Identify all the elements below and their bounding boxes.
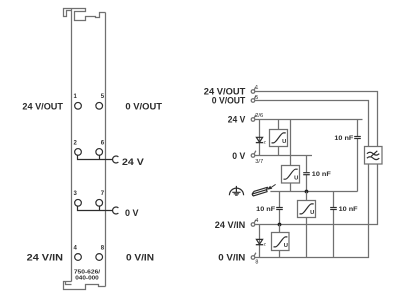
svg-text:8: 8	[255, 260, 258, 266]
pin 4 contact	[75, 254, 82, 261]
svg-text:4: 4	[255, 218, 258, 224]
terminal 5 circle with actuation slash	[251, 96, 256, 103]
svg-text:0 V/OUT: 0 V/OUT	[212, 96, 246, 106]
terminal block module outline (left edge)	[71, 9, 73, 282]
wire net 0V/OUT: terminal 5 to filter left lead	[255, 101, 369, 147]
svg-text:5: 5	[101, 94, 105, 100]
svg-text:7: 7	[101, 191, 105, 197]
wire from pins 2 and 6 to 24 V field clamp	[78, 155, 113, 159]
wire net 0V rail	[255, 155, 312, 157]
DIN rail contact symbol (rail with arrow)	[252, 184, 275, 196]
svg-text:10 nF: 10 nF	[312, 171, 331, 178]
pin 2 contact	[75, 149, 82, 156]
svg-text:z: z	[264, 140, 267, 145]
svg-text:0 V/OUT: 0 V/OUT	[125, 102, 162, 112]
diode D2 wire (24V/IN rail to 0V/IN rail)	[259, 225, 261, 258]
svg-text:2/6: 2/6	[255, 113, 263, 119]
svg-text:0 V/IN: 0 V/IN	[126, 252, 154, 262]
svg-text:8: 8	[101, 245, 105, 251]
surge box U4	[272, 233, 290, 251]
surge box U3 lead wires (earth junction to 0V/IN rail, crossing 24V/IN)	[306, 192, 308, 258]
svg-text:24 V/IN: 24 V/IN	[215, 220, 246, 230]
capacitor C2 plates	[303, 173, 310, 175]
pin 6 contact	[96, 149, 103, 156]
capacitor C3 plates	[276, 208, 283, 210]
pin 3 contact	[75, 199, 82, 206]
surge box U2 lead wires (24V rail crossing 0V rail to earth rail)	[290, 120, 292, 192]
capacitor C1 plates	[354, 137, 361, 139]
pin 5 contact	[96, 102, 103, 109]
svg-text:3: 3	[74, 191, 78, 197]
capacitor C2 wire (0V rail to earth rail junction)	[306, 156, 308, 192]
junction dot 24V/IN rail / C3 / U4	[278, 223, 282, 227]
svg-text:750-626/: 750-626/	[74, 270, 101, 276]
svg-text:6: 6	[101, 140, 105, 146]
diode D2 symbol (suppressor)	[256, 239, 263, 244]
diode D1 wire (24V rail to 0V rail)	[259, 120, 261, 156]
svg-text:0 V/IN: 0 V/IN	[218, 253, 245, 263]
svg-text:24 V: 24 V	[228, 115, 246, 125]
wire net 0V/IN rail to filter left lead	[255, 164, 369, 258]
svg-text:10 nF: 10 nF	[334, 135, 353, 142]
svg-text:24 V/OUT: 24 V/OUT	[22, 102, 63, 112]
svg-text:4: 4	[74, 245, 78, 251]
field wiring clamp 24 V	[113, 156, 119, 163]
svg-text:U: U	[282, 139, 286, 145]
surge box U4 lead wires (24V/IN junction to 0V/IN rail)	[279, 225, 281, 258]
svg-text:10 nF: 10 nF	[256, 206, 275, 213]
svg-text:0 V: 0 V	[125, 208, 139, 218]
pin 7 contact	[96, 199, 103, 206]
wire from pins 3 and 7 to 0 V field clamp	[78, 206, 113, 210]
module bottom contour with DIN-rail foot	[64, 282, 106, 290]
field wiring clamp 0 V	[113, 207, 119, 214]
wire net 24V/OUT: terminal 1 to filter right lead	[255, 92, 378, 147]
svg-text:24 V: 24 V	[122, 157, 145, 167]
svg-text:U: U	[284, 243, 288, 249]
functional earth symbol	[229, 186, 243, 195]
pin 8 contact	[96, 254, 103, 261]
svg-text:z: z	[264, 242, 267, 247]
junction dot earth rail / C2 / U3	[305, 190, 309, 194]
capacitor C4 wire (earth rail crossing 24V/IN rail to 0V/IN rail)	[333, 192, 335, 258]
pin 1 contact	[75, 102, 82, 109]
surge box U2	[282, 166, 300, 184]
terminal 8 circle with actuation slash	[251, 253, 256, 260]
capacitor C1 wire (24V rail to earth rail corner)	[357, 120, 359, 192]
capacitor C4 plates	[330, 208, 337, 210]
svg-text:3/7: 3/7	[255, 159, 263, 165]
svg-text:10 nF: 10 nF	[339, 206, 358, 213]
filter box (interference filter)	[365, 147, 383, 165]
svg-text:1: 1	[74, 94, 78, 100]
surge box U1 lead wires (24V rail to 0V rail)	[278, 120, 280, 156]
capacitor C3 wire (earth rail to 24V/IN junction)	[279, 192, 281, 225]
wire net earth rail	[270, 191, 357, 193]
surge box U1	[270, 130, 288, 147]
diode D1 symbol (suppressor)	[256, 137, 263, 142]
wire net 24V/IN rail to filter right lead	[255, 164, 378, 225]
svg-text:0 V: 0 V	[232, 151, 246, 161]
terminal 2/6 circle with actuation slash	[251, 115, 256, 122]
svg-text:U: U	[310, 210, 314, 216]
svg-text:040-000: 040-000	[75, 276, 99, 282]
svg-text:2: 2	[74, 140, 78, 146]
wire net 24V rail	[255, 119, 363, 121]
terminal 1 circle with actuation slash	[251, 87, 256, 94]
svg-text:24 V/IN: 24 V/IN	[27, 252, 64, 262]
svg-text:U: U	[294, 175, 298, 181]
terminal 4 circle with actuation slash	[251, 220, 256, 227]
terminal block module outline (right edge)	[105, 13, 107, 287]
surge box U3	[298, 201, 316, 218]
module top contour with DIN-rail latch	[64, 9, 106, 21]
terminal 3/7 circle with actuation slash	[251, 151, 256, 158]
svg-text:1: 1	[255, 85, 258, 91]
module bottom foot inner notch	[66, 282, 72, 285]
